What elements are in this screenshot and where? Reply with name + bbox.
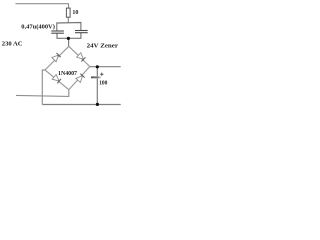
svg-text:230 AC: 230 AC bbox=[2, 41, 23, 48]
svg-text:0,47u(400V): 0,47u(400V) bbox=[21, 23, 55, 30]
svg-text:100: 100 bbox=[99, 79, 107, 86]
svg-text:24V Zener: 24V Zener bbox=[87, 43, 118, 50]
svg-text:1N4007: 1N4007 bbox=[58, 70, 78, 77]
svg-text:10: 10 bbox=[72, 9, 79, 16]
